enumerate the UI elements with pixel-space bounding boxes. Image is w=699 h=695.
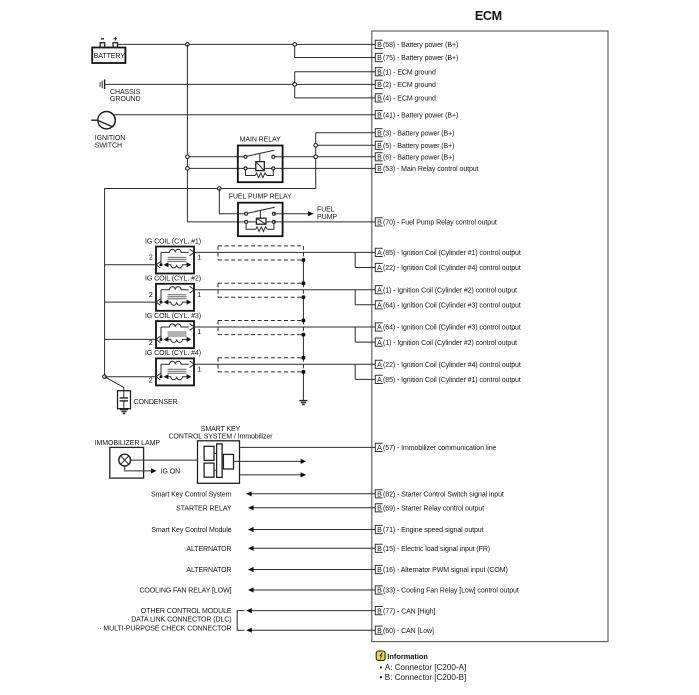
ECM pin B(5) [375, 141, 454, 150]
svg-text:IG COIL (CYL. #3): IG COIL (CYL. #3) [145, 313, 201, 320]
svg-text:(5) - Battery power (B+): (5) - Battery power (B+) [383, 143, 454, 150]
wire fuel pump relay coil feed [187, 221, 246, 223]
wire ignition switch to B(41) [113, 114, 375, 116]
wire lamp IG ON [125, 466, 152, 471]
wire main relay switch output to B(6) [273, 156, 375, 158]
wire to B(5) [316, 144, 376, 146]
wire coil #2 output to ECM pair [194, 290, 375, 305]
svg-text:B: B [377, 628, 382, 635]
svg-text:B: B [377, 155, 382, 162]
junction B(6) [314, 155, 318, 159]
svg-text:SMART KEY: SMART KEY [201, 426, 241, 433]
wire branch to B(75) [295, 44, 376, 57]
wire fuel pump relay to FUEL PUMP [274, 213, 308, 215]
shield junction dot [301, 295, 305, 299]
shield junction dot [301, 281, 305, 285]
wire coil #3 output to ECM pair [194, 327, 375, 342]
wire to B(1) [295, 71, 376, 73]
ECM pin A(22) [375, 263, 521, 272]
svg-text:IG COIL (CYL. #4): IG COIL (CYL. #4) [145, 350, 201, 357]
svg-text:(1) - Ignition Coil (Cylinder: (1) - Ignition Coil (Cylinder #2) contro… [383, 340, 517, 347]
svg-text:B: B [377, 143, 382, 150]
ECM pin B(77) [375, 607, 435, 616]
svg-text:1: 1 [197, 292, 201, 299]
chassis ground [100, 79, 141, 103]
svg-text:A: Connector [C200-A]: A: Connector [C200-A] [385, 663, 466, 672]
svg-text:B: B [377, 82, 382, 89]
ECM pin B(70) [375, 218, 497, 227]
wire Smart Key Control Module row [253, 529, 375, 531]
svg-text:IG ON: IG ON [161, 469, 180, 476]
svg-text:(69) - Starter Relay control o: (69) - Starter Relay control output [383, 506, 484, 513]
svg-text:GROUND: GROUND [110, 96, 141, 103]
svg-text:PUMP: PUMP [317, 214, 337, 221]
svg-text:(41) - Battery power (B+): (41) - Battery power (B+) [383, 112, 458, 119]
junction coil bus end [103, 375, 107, 379]
ECM pin B(3) [375, 129, 454, 138]
svg-text:(1) - ECM ground: (1) - ECM ground [383, 69, 436, 76]
svg-text:(33) - Cooling Fan Relay [Low]: (33) - Cooling Fan Relay [Low] control o… [383, 588, 519, 595]
wire smart key to A(57) [240, 446, 376, 448]
arrow ALTERNATOR [248, 546, 254, 551]
information icon [376, 651, 385, 660]
wire fuel pump relay coil to B(70) [274, 221, 375, 223]
svg-text:(1) - Ignition Coil (Cylinder: (1) - Ignition Coil (Cylinder #2) contro… [383, 287, 517, 294]
svg-text:· OTHER CONTROL MODULE: · OTHER CONTROL MODULE [137, 608, 232, 615]
ignition coil IG COIL (CYL. #1) [145, 238, 201, 273]
ECM pin B(4) [375, 94, 436, 103]
junction ground branch [293, 83, 297, 87]
svg-text:B: B [377, 130, 382, 137]
ECM pin B(41) [375, 111, 458, 120]
svg-text:(85) - Ignition Coil (Cylinder: (85) - Ignition Coil (Cylinder #1) contr… [383, 377, 521, 384]
svg-text:(82) - Starter Control Switch: (82) - Starter Control Switch signal inp… [383, 492, 504, 499]
shield ground [299, 400, 307, 402]
wire ECM ground group vertical [294, 72, 296, 98]
svg-text:(70) - Fuel Pump Relay control: (70) - Fuel Pump Relay control output [383, 220, 497, 227]
svg-text:B: B [377, 112, 382, 119]
wire main relay coil to B(53) [273, 167, 375, 169]
svg-text:FUEL: FUEL [317, 206, 335, 213]
arrow Smart Key Control System [246, 491, 252, 496]
svg-text:(22) - Ignition Coil (Cylinder: (22) - Ignition Coil (Cylinder #4) contr… [383, 265, 521, 272]
svg-text:(6) - Battery power (B+): (6) - Battery power (B+) [383, 155, 454, 162]
wire ALTERNATOR row [253, 569, 375, 571]
svg-text:1: 1 [197, 329, 201, 336]
ignition coil IG COIL (CYL. #4) [145, 350, 201, 385]
ignition coil IG COIL (CYL. #2) [145, 276, 201, 311]
wire coil #1 output to ECM pair [194, 252, 375, 267]
junction B(75) branch [293, 43, 297, 47]
ECM pin B(75) [375, 53, 458, 62]
shield junction dot [301, 333, 305, 337]
ECM pin A(64) [375, 323, 521, 332]
svg-text:A: A [377, 445, 382, 452]
svg-text:(3) - Battery power (B+): (3) - Battery power (B+) [383, 130, 454, 137]
junction bus/coil [186, 167, 190, 171]
svg-text:(15) - Electric load signal in: (15) - Electric load signal input (FR) [383, 546, 490, 553]
ECM pin A(1) [375, 338, 517, 347]
wire CAN Low row [251, 629, 375, 631]
svg-text:(64) - Ignition Coil (Cylinder: (64) - Ignition Coil (Cylinder #3) contr… [383, 325, 521, 332]
wire smart key output arrow 1 [240, 460, 301, 462]
svg-text:(85) - Ignition Coil (Cylinder: (85) - Ignition Coil (Cylinder #1) contr… [383, 250, 521, 257]
svg-text:B: B [377, 220, 382, 227]
svg-text:B: B [377, 42, 382, 49]
shield dashed boxes [218, 246, 303, 372]
note connector B [380, 676, 382, 678]
wire STARTER RELAY row [253, 507, 375, 509]
ECM pin A(64) [375, 301, 521, 310]
svg-text:1: 1 [197, 366, 201, 373]
svg-text:Smart Key Control Module: Smart Key Control Module [151, 527, 231, 534]
wire COOLING FAN RELAY [LOW] row [253, 589, 375, 591]
svg-text:2: 2 [149, 340, 153, 347]
ECM pin B(33) [375, 586, 519, 595]
svg-text:IG COIL (CYL. #1): IG COIL (CYL. #1) [145, 238, 201, 245]
svg-text:A: A [377, 377, 382, 384]
svg-text:B: B [377, 55, 382, 62]
junction fuel pump relay branch [218, 187, 222, 191]
svg-text:B: B [377, 96, 382, 103]
svg-text:A: A [377, 325, 382, 332]
ECM pin A(57) [375, 443, 496, 452]
ECM pin B(1) [375, 68, 436, 77]
shield junction dot [301, 356, 305, 360]
svg-text:CHASSIS: CHASSIS [110, 89, 141, 96]
svg-text:ALTERNATOR: ALTERNATOR [186, 546, 231, 553]
svg-text:SWITCH: SWITCH [95, 142, 122, 149]
shield junction dot [301, 258, 305, 262]
svg-text:IGNITION: IGNITION [95, 135, 125, 142]
ECM pin B(6) [375, 153, 454, 162]
wire B(3)/B(5) vertical [316, 133, 376, 189]
svg-text:· DATA LINK CONNECTOR (DLC): · DATA LINK CONNECTOR (DLC) [127, 617, 231, 624]
svg-text:B: B [377, 527, 382, 534]
svg-text:(75) - Battery power (B+): (75) - Battery power (B+) [383, 55, 458, 62]
arrow COOLING FAN RELAY [LOW] [248, 587, 254, 592]
svg-text:CONTROL SYSTEM / Immobilizer: CONTROL SYSTEM / Immobilizer [168, 434, 273, 441]
arrow Smart Key Control Module [248, 527, 254, 532]
svg-text:MAIN RELAY: MAIN RELAY [240, 137, 281, 144]
svg-text:IMMOBILIZER LAMP: IMMOBILIZER LAMP [95, 440, 161, 447]
arrow STARTER RELAY [248, 505, 254, 510]
junction bus/switch [186, 155, 190, 159]
wire battery B+ to B(58) [118, 43, 376, 45]
wire fuel pump relay switch feed [219, 189, 246, 214]
ECM pin B(82) [375, 490, 504, 499]
svg-text:ECM: ECM [475, 9, 502, 23]
wire main relay switch feed [187, 156, 245, 158]
wire feed coil #1 pin 2 [105, 264, 156, 266]
ECM pin B(69) [375, 504, 484, 513]
svg-text:· MULTI-PURPOSE CHECK CONNECTO: · MULTI-PURPOSE CHECK CONNECTOR [99, 626, 231, 633]
svg-text:2: 2 [149, 378, 153, 385]
svg-text:A: A [377, 250, 382, 257]
svg-text:(53) - Main Relay control outp: (53) - Main Relay control output [383, 166, 479, 173]
svg-text:(60) - CAN [Low]: (60) - CAN [Low] [383, 628, 434, 635]
svg-text:A: A [377, 362, 382, 369]
wire ignition coil feed line [105, 189, 316, 377]
svg-text:Smart Key Control System: Smart Key Control System [151, 492, 232, 499]
ignition switch [91, 112, 125, 150]
svg-text:B: B [377, 69, 382, 76]
svg-text:IG COIL (CYL. #2): IG COIL (CYL. #2) [145, 276, 201, 283]
ECM pin B(58) [375, 40, 458, 49]
svg-text:FUEL PUMP RELAY: FUEL PUMP RELAY [229, 194, 292, 201]
ECM pin B(16) [375, 565, 507, 574]
wire main relay coil feed [187, 167, 245, 169]
wire feed coil #2 pin 2 [105, 301, 156, 303]
wire condenser branch [105, 377, 124, 391]
shield junction dot [301, 319, 305, 323]
wire smart key output arrow 2 [240, 474, 301, 476]
ignition coil IG COIL (CYL. #3) [145, 313, 201, 348]
svg-text:(71) - Engine speed signal out: (71) - Engine speed signal output [383, 527, 484, 534]
ECM pin A(85) [375, 248, 521, 257]
ECM pin B(71) [375, 525, 483, 534]
shield junction dot [301, 370, 305, 374]
junction battery bus [186, 43, 190, 47]
ECM pin B(60) [375, 626, 434, 635]
svg-text:B: B [377, 588, 382, 595]
svg-text:COOLING FAN RELAY [LOW]: COOLING FAN RELAY [LOW] [139, 588, 231, 595]
wire coil #4 output to ECM pair [194, 364, 375, 379]
ECM pin A(22) [375, 360, 521, 369]
svg-text:(64) - Ignition Coil (Cylinder: (64) - Ignition Coil (Cylinder #3) contr… [383, 303, 521, 310]
svg-text:(57) - Immobilizer communicati: (57) - Immobilizer communication line [383, 445, 497, 452]
ECM pin A(85) [375, 375, 521, 384]
shield drain wire [302, 260, 304, 400]
svg-text:B: B [377, 506, 382, 513]
svg-text:1: 1 [197, 255, 201, 262]
svg-text:(2) - ECM ground: (2) - ECM ground [383, 82, 436, 89]
arrow fuel pump [308, 211, 314, 216]
wire Smart Key Control System row [251, 493, 375, 495]
fuel pump relay [229, 194, 292, 237]
svg-text:2: 2 [149, 292, 153, 299]
wire battery bus vertical [186, 44, 188, 222]
svg-text:(58) - Battery power (B+): (58) - Battery power (B+) [383, 42, 458, 49]
ECM pin A(1) [375, 286, 517, 295]
main relay [238, 137, 283, 183]
ECM pin B(15) [375, 544, 490, 553]
svg-text:A: A [377, 340, 382, 347]
wire chassis ground to B(2) [105, 83, 376, 85]
smart key control module U [198, 441, 240, 484]
svg-text:A: A [377, 265, 382, 272]
svg-text:2: 2 [149, 255, 153, 262]
svg-text:B: B [377, 608, 382, 615]
svg-text:(77) - CAN [High]: (77) - CAN [High] [383, 608, 435, 615]
battery [92, 37, 125, 63]
svg-text:(22) - Ignition Coil (Cylinder: (22) - Ignition Coil (Cylinder #4) contr… [383, 362, 521, 369]
svg-text:(4) - ECM ground: (4) - ECM ground [383, 96, 436, 103]
svg-text:BATTERY: BATTERY [94, 52, 126, 60]
condenser ground [120, 409, 128, 411]
wire feed coil #3 pin 2 [105, 338, 156, 340]
wire ALTERNATOR row [253, 547, 375, 549]
wire lamp to smart key [131, 459, 198, 461]
svg-text:B: Connector [C200-B]: B: Connector [C200-B] [385, 673, 466, 682]
svg-text:A: A [377, 287, 382, 294]
condenser C [118, 391, 178, 409]
ECM pin B(2) [375, 80, 436, 89]
svg-text:STARTER RELAY: STARTER RELAY [176, 506, 232, 513]
note connector A [380, 666, 382, 668]
svg-text:B: B [377, 567, 382, 574]
svg-text:Information: Information [387, 652, 428, 661]
CAN bracket [237, 611, 244, 631]
wire CAN High row [251, 610, 375, 612]
svg-text:CONDENSER: CONDENSER [134, 399, 178, 406]
svg-text:(16) - Alternator PWM signal i: (16) - Alternator PWM signal input (COM) [383, 567, 508, 574]
arrow ALTERNATOR [248, 567, 254, 572]
svg-text:A: A [377, 303, 382, 310]
svg-text:B: B [377, 166, 382, 173]
ECM pin B(53) [375, 164, 478, 173]
wire feed coil #4 pin 2 [105, 376, 157, 378]
svg-text:B: B [377, 492, 382, 499]
ECM box [372, 31, 608, 642]
svg-text:B: B [377, 546, 382, 553]
wire to B(4) [295, 97, 376, 99]
junction B(5) [314, 144, 318, 148]
svg-text:ALTERNATOR: ALTERNATOR [186, 567, 231, 574]
